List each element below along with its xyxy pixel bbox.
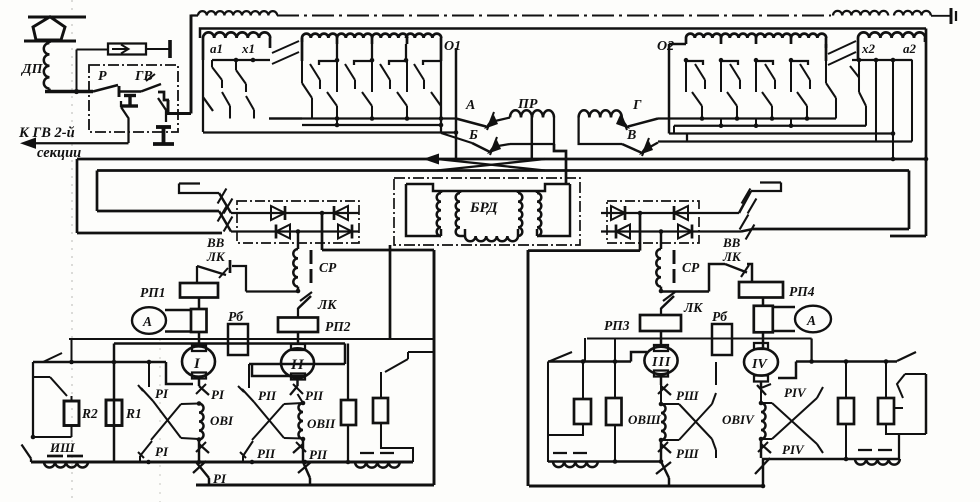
disconnect far right <box>897 352 916 361</box>
outer frame top wire <box>77 158 926 161</box>
relay coil RP2 <box>278 318 318 333</box>
svg-text:РII: РII <box>257 446 276 461</box>
VV isolator slashes right top <box>739 191 751 213</box>
bus under a1x1 <box>212 59 270 61</box>
wire from GV up to primary <box>190 15 193 114</box>
primary winding right scallops <box>833 11 888 16</box>
crossing wires <box>437 159 545 171</box>
diode D5 <box>611 206 625 220</box>
svg-text:Рб: Рб <box>712 309 728 324</box>
svg-text:ОВIV: ОВIV <box>722 412 755 427</box>
resistor E right <box>845 362 847 398</box>
svg-text:ОВI: ОВI <box>210 413 234 428</box>
svg-text:ЛК: ЛК <box>683 300 703 315</box>
svg-text:ИШ: ИШ <box>49 440 75 455</box>
coil ДП <box>48 41 50 43</box>
O1 left edge chain <box>302 61 312 119</box>
long wire y339 left <box>69 338 434 340</box>
tap contacts O2 to x2a2 <box>828 41 856 54</box>
svg-text:РIV: РIV <box>782 442 805 457</box>
VV isolator slashes right bottom <box>741 229 753 232</box>
enclosure box P GV (dash-dot) <box>89 65 178 132</box>
svg-text:РI: РI <box>155 386 169 401</box>
motor III top link <box>660 331 662 345</box>
wire to arrester <box>75 50 77 92</box>
diode D6 <box>674 206 688 220</box>
resistor D right group <box>606 398 622 425</box>
bus y485 left <box>196 484 434 487</box>
rail ground symbol <box>950 8 953 24</box>
ballast resistor Rb left <box>228 324 248 355</box>
traction motor III <box>644 347 677 375</box>
resistor B left group <box>373 398 388 423</box>
svg-text:РШ: РШ <box>676 388 699 403</box>
inner frame right <box>908 171 911 230</box>
BRD output right <box>527 250 530 486</box>
R2 bottom link <box>70 426 72 438</box>
svg-text:Б: Б <box>468 128 478 143</box>
svg-text:РI: РI <box>155 444 169 459</box>
lower contact of P to 2nd section <box>120 101 122 107</box>
LK1 fixed bar <box>229 260 232 273</box>
svg-text:РII: РII <box>305 388 324 403</box>
svg-text:О2: О2 <box>657 39 674 54</box>
O2 tap switches <box>686 61 703 65</box>
bus under x2a2 <box>852 59 912 61</box>
SR core dashes <box>310 250 313 264</box>
VV isolator slashes left bottom <box>219 211 231 232</box>
transition winding far right <box>858 449 872 451</box>
SR right core dashes <box>673 250 676 264</box>
a1x1 tap switches <box>212 60 222 88</box>
bridge output junction <box>320 211 325 216</box>
motor I brush bottom <box>192 373 206 379</box>
group contact PIV bottom <box>755 458 770 474</box>
contact below OVI <box>199 444 209 453</box>
svg-text:О1: О1 <box>444 39 461 54</box>
svg-text:ВВ: ВВ <box>206 235 225 250</box>
I-bar symbol lower <box>156 125 171 129</box>
group contact PIII bottom <box>661 462 669 479</box>
motor III brush top <box>654 345 668 351</box>
diode D7 <box>616 225 630 239</box>
svg-text:РI: РI <box>211 387 225 402</box>
BRD internal top bus <box>406 184 570 191</box>
direction arrow <box>423 154 439 165</box>
wire PR to BRD <box>554 144 566 184</box>
winding x2-a2 <box>858 32 925 38</box>
svg-text:Р: Р <box>98 69 107 84</box>
bus y461 right <box>548 460 661 462</box>
switch P contact <box>93 85 118 92</box>
outer frame left <box>76 159 79 233</box>
svg-text:III: III <box>651 355 671 370</box>
contact G arrowhead <box>616 115 630 129</box>
contact G blade <box>628 119 658 127</box>
BRD right outer leg <box>540 184 570 236</box>
arrow to 2nd section wire <box>33 142 129 144</box>
reverser X motor IV <box>761 402 772 404</box>
svg-text:А: А <box>465 98 475 113</box>
O2 left edge wire <box>668 44 670 134</box>
motor III brush bottom <box>654 371 668 377</box>
x2a2 tap switches <box>850 60 859 92</box>
traction motor II <box>281 348 314 377</box>
contact PII on motor II column <box>290 386 298 395</box>
R2 branch contact <box>33 376 50 378</box>
bus wire y362 right <box>548 360 631 362</box>
vertical x71 R2 link <box>70 339 72 362</box>
junction SR right <box>659 289 664 294</box>
svg-text:РII: РII <box>309 447 328 462</box>
left column x33 <box>32 362 34 437</box>
outer frame right <box>925 29 928 237</box>
wire PR left under <box>510 118 554 145</box>
winding O1 <box>301 38 304 42</box>
contact V fixed wire <box>658 140 912 142</box>
svg-text:x2: x2 <box>861 41 876 56</box>
reverser X motor I <box>153 401 181 438</box>
reverser upper-left PII <box>248 364 250 388</box>
diode D3 <box>276 225 290 239</box>
reverser X motor III <box>661 403 679 405</box>
wire a1-a2 long horizontal <box>200 29 926 39</box>
bridge right dc wire <box>528 249 640 252</box>
group contact PI bottom <box>196 462 209 478</box>
bottom frame right group <box>529 485 763 488</box>
primary winding left scallops <box>191 14 198 16</box>
wire right step to VV <box>751 183 781 192</box>
wire LK1 to RP1 <box>232 266 246 292</box>
wire LK4 to RP4 <box>661 290 709 292</box>
junction <box>74 89 79 94</box>
bus y459 far right <box>813 458 899 460</box>
traction motor IV <box>754 343 768 349</box>
vertical x615 <box>614 338 616 362</box>
svg-text:I: I <box>193 356 201 372</box>
svg-text:ГВ: ГВ <box>134 69 153 84</box>
reverser lower-left PII <box>243 441 253 456</box>
O1 tap bus <box>336 44 338 61</box>
wire GV to transformer <box>168 100 191 114</box>
ammeter A right <box>795 306 831 333</box>
contact B feed <box>441 133 472 143</box>
svg-text:ЛК: ЛК <box>317 297 337 312</box>
motor IV bracket <box>778 362 796 379</box>
surge arrester <box>108 44 146 55</box>
contact below OVII <box>293 444 303 453</box>
contact PI on motor I column <box>199 386 209 395</box>
bottom left open contact <box>22 445 32 459</box>
svg-text:РIV: РIV <box>784 385 807 400</box>
resistor R2 <box>64 401 79 426</box>
bridge right output junction <box>638 211 643 216</box>
x2a2 column 2 <box>875 60 877 142</box>
BRD left outer leg <box>406 184 436 236</box>
shunt box II link <box>297 332 299 344</box>
BRD winding 4 <box>537 193 541 236</box>
rectifier bridge box left (dash-dot) <box>237 201 359 243</box>
inner frame top wire <box>97 169 909 172</box>
svg-text:ДП: ДП <box>20 62 44 77</box>
bridge wires right <box>601 212 739 214</box>
O1 tap switches <box>319 61 337 65</box>
shunt connection band <box>165 309 191 311</box>
svg-text:ЛК: ЛК <box>722 249 742 264</box>
svg-text:a1: a1 <box>210 41 223 56</box>
diode D4 <box>338 225 352 239</box>
rectifier bridge box right (dash-dot) <box>607 201 699 243</box>
pantograph <box>28 16 86 19</box>
ballast resistor Rb right <box>712 324 732 355</box>
diode D8 <box>678 225 692 239</box>
smoothing reactor SR left <box>297 232 299 250</box>
disconnect contact left <box>43 353 62 362</box>
contact below OVIV <box>761 444 771 453</box>
relay coil RP3 <box>640 315 681 331</box>
svg-text:РШ: РШ <box>676 446 699 461</box>
contact A blade <box>456 119 486 127</box>
inner frame bottom right <box>753 228 909 231</box>
O2 bus links <box>673 126 675 134</box>
traction motor I <box>182 346 215 376</box>
motor II brush bottom <box>291 374 305 380</box>
link from y338 line <box>810 339 812 362</box>
motor II brush top <box>291 344 305 350</box>
wire motor I to bus <box>166 362 193 384</box>
winding O2 <box>686 34 721 38</box>
shunt band IV <box>773 306 795 308</box>
relay coil RP1 <box>180 283 218 298</box>
motor II left bracket <box>249 363 345 365</box>
resistor F right <box>885 362 887 398</box>
contact B arrowhead <box>487 140 501 154</box>
bridge dc minus wire <box>322 249 434 252</box>
switch GV contact <box>119 90 141 92</box>
group contact PII bottom <box>303 462 310 478</box>
svg-text:БРД: БРД <box>469 200 498 216</box>
transition winding left group <box>360 452 374 454</box>
svg-text:IV: IV <box>751 357 768 372</box>
bridge wires <box>231 212 359 214</box>
svg-text:А: А <box>142 314 152 329</box>
ammeter A left <box>132 307 166 334</box>
vertical x585 <box>584 338 586 362</box>
LK2 contact <box>298 296 311 309</box>
BRD winding 3 <box>518 193 522 236</box>
wire to smoothing reactor SR right <box>660 232 662 250</box>
svg-text:ОВШ: ОВШ <box>628 412 661 427</box>
inner frame left <box>96 171 99 212</box>
svg-text:РП3: РП3 <box>604 318 630 333</box>
diode D1 <box>271 206 285 220</box>
motor III bracket <box>631 352 647 362</box>
reverser lower-left contact PI <box>140 441 152 456</box>
contact A arrowhead <box>484 115 498 129</box>
svg-text:РII: РII <box>258 388 277 403</box>
reverser X motor II <box>254 402 284 438</box>
wire outer frame bottom to bridge <box>77 232 222 235</box>
O1 right edge wire <box>440 44 443 61</box>
svg-text:ЛК: ЛК <box>206 249 226 264</box>
resistor C right group <box>582 362 584 400</box>
bus y362 far right <box>796 360 897 362</box>
fixed contact I-bar of P <box>124 94 136 97</box>
relay coil RP4 <box>739 282 783 298</box>
field winding OVIV <box>759 401 764 406</box>
motor I brush top <box>192 345 206 351</box>
svg-text:ВВ: ВВ <box>722 235 741 250</box>
svg-text:СР: СР <box>682 260 700 275</box>
svg-text:Г: Г <box>632 98 642 113</box>
contact V arrowhead <box>639 141 653 155</box>
wire y338 right <box>587 337 812 339</box>
wire pantograph to switch P <box>45 90 93 93</box>
bus wire y362 left <box>33 361 166 363</box>
bus y462 left <box>31 461 413 464</box>
svg-text:А: А <box>806 313 816 328</box>
reverser upper-left contact PI <box>148 362 150 387</box>
x2a2 column 3 <box>892 60 894 159</box>
disconnect contact right group <box>549 352 572 362</box>
left block left edge <box>203 60 213 111</box>
wire PR right under <box>579 118 622 145</box>
bus link verticals <box>336 119 338 126</box>
BRD winding 2 <box>456 193 460 236</box>
O2 right edge chain <box>825 44 828 61</box>
svg-text:К ГВ 2-й: К ГВ 2-й <box>18 125 75 141</box>
svg-text:В: В <box>626 128 636 143</box>
resistor R1 <box>106 400 122 426</box>
svg-text:x1: x1 <box>241 41 255 56</box>
BRD output left <box>433 250 436 485</box>
svg-text:ОВII: ОВII <box>307 416 336 431</box>
ground electrode plate <box>168 40 172 58</box>
BRD winding 1 <box>437 193 441 236</box>
smoothing reactor SR right <box>656 249 661 287</box>
left group feed wire <box>389 245 392 339</box>
PR mid tap down <box>531 118 533 160</box>
contact PIII on motor III column <box>661 386 671 395</box>
vertical x114 R1 column <box>113 344 115 363</box>
primary line dash-dot <box>277 14 831 16</box>
svg-text:секции: секции <box>37 145 81 161</box>
contact B blade <box>472 143 489 152</box>
reverser right contacts III <box>712 393 716 404</box>
GV fixed contact <box>158 92 169 100</box>
svg-text:РП2: РП2 <box>325 319 351 334</box>
reactor coil PR left <box>510 110 532 117</box>
far right inner contact <box>905 373 926 375</box>
svg-text:Рб: Рб <box>228 309 244 324</box>
svg-text:СР: СР <box>319 260 337 275</box>
right frame vertical <box>925 374 927 434</box>
block BRD box (dash-dot) <box>394 178 580 245</box>
a2 right edge column <box>911 60 913 142</box>
O1 bottom buses <box>269 117 456 119</box>
shunt box I <box>191 309 207 332</box>
LK1 contact <box>197 266 226 275</box>
wire from right block bus to frame <box>891 157 896 162</box>
field winding OVII <box>301 401 306 406</box>
LK4 contact <box>725 264 747 273</box>
svg-text:R1: R1 <box>125 406 142 421</box>
svg-text:РП4: РП4 <box>789 284 815 299</box>
O1 left edge <box>301 38 304 61</box>
fold line artifact <box>71 0 73 502</box>
long wire y343 left <box>114 342 345 344</box>
transition winding right group <box>553 452 567 454</box>
coil PR right half <box>579 110 601 117</box>
contact V blade <box>622 144 641 153</box>
shunt box IV <box>754 306 773 333</box>
field winding OVI <box>197 401 202 406</box>
lower contact of GV <box>158 98 166 122</box>
wire inner frame bottom <box>97 210 219 213</box>
tap contacts a1x1 to O1 <box>272 41 299 53</box>
wire frame to VV switch top <box>179 184 219 194</box>
VV isolator slashes left top <box>219 193 231 213</box>
O2 bottom buses <box>658 117 836 119</box>
svg-text:РП1: РП1 <box>140 285 166 300</box>
winding a1-x1 <box>203 32 270 38</box>
field winding OVIII <box>659 402 664 407</box>
svg-text:a2: a2 <box>903 41 917 56</box>
junction SR left <box>296 289 301 294</box>
a1x1 lower bus link <box>269 117 302 119</box>
contact PIV on motor IV column <box>761 384 771 388</box>
contact to resistor B <box>408 351 434 353</box>
BRD bottom winding <box>464 229 466 236</box>
resistor column A left group <box>347 344 349 401</box>
diode D2 <box>334 206 348 220</box>
LK3 contact <box>661 296 674 309</box>
svg-text:R2: R2 <box>81 406 98 421</box>
contact below OVIII <box>661 444 671 453</box>
